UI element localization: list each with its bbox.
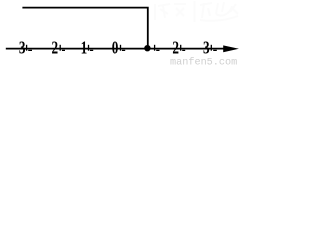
svg-text:0: 0 (112, 39, 119, 58)
svg-text:manfen5.com: manfen5.com (170, 56, 237, 66)
svg-text:3: 3 (203, 39, 210, 58)
svg-text:2: 2 (172, 39, 179, 58)
svg-text:3: 3 (19, 39, 26, 58)
svg-text:1: 1 (81, 39, 88, 58)
svg-text:2: 2 (51, 39, 58, 58)
